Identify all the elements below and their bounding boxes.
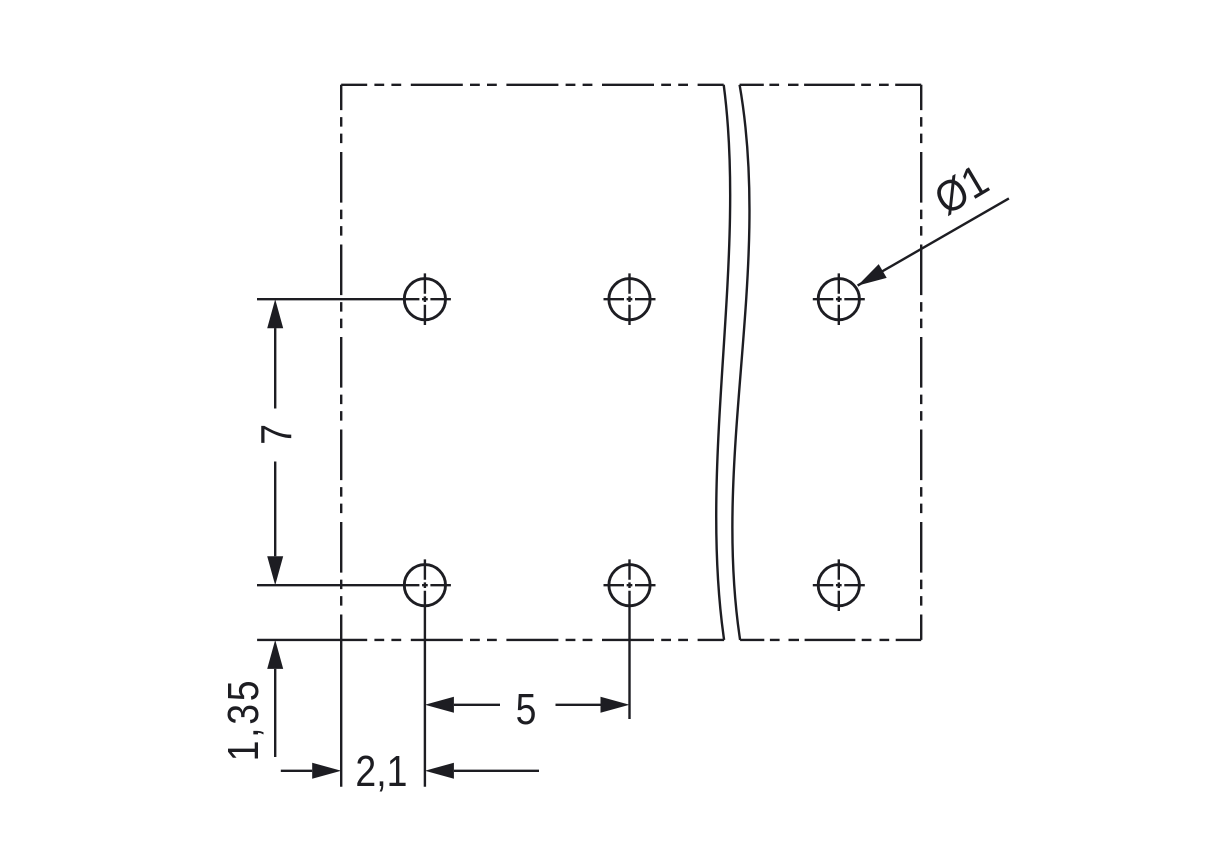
board outline bottom edge left segment — [341, 639, 724, 641]
hole H3 circle (top-right) — [818, 279, 859, 320]
board outline top edge left segment — [341, 84, 724, 86]
dimension 2,1 arrow pointing right — [312, 763, 341, 779]
board outline bottom edge right segment — [740, 639, 921, 641]
extension line left board edge extended below (for dim 2,1) — [340, 640, 342, 787]
svg-text:2,1: 2,1 — [355, 746, 407, 796]
svg-text:7: 7 — [252, 424, 302, 445]
hole H2 center mark — [604, 273, 656, 325]
dimension 1,35 arrow up — [267, 640, 283, 669]
svg-text:5: 5 — [516, 684, 537, 734]
dimension 2,1 arrow pointing left — [425, 763, 454, 779]
dimension 1,35 line — [274, 669, 276, 757]
dimension 5 arrow left — [425, 697, 454, 713]
hole H4 circle (bottom-left) — [404, 565, 445, 606]
break line left curve — [716, 85, 730, 640]
dimension 5 line left segment — [454, 704, 500, 706]
hole H6 circle (bottom-right) — [818, 565, 859, 606]
dimension 5 line right segment — [556, 704, 601, 706]
hole H1 center mark — [257, 273, 451, 325]
hole H5 center mark with extension to dimension 5 — [604, 559, 656, 719]
extension line bottom board edge (left of board, for dim 1,35) — [257, 639, 341, 641]
hole H1 circle (top-left) — [404, 279, 445, 320]
hole H4 center mark with extended extension lines — [257, 559, 451, 786]
dimension 2,1 left arrow shaft — [281, 770, 312, 772]
leader arrow — [858, 264, 887, 286]
svg-text:Ø1: Ø1 — [926, 155, 997, 224]
leader line for diameter callout — [858, 198, 1009, 285]
dimension 7 line upper segment — [274, 328, 276, 408]
dimension 5 arrow right — [601, 697, 630, 713]
hole H6 center mark — [813, 559, 865, 611]
hole H5 circle (bottom-middle) — [609, 565, 650, 606]
dimension 7 arrow up — [267, 299, 283, 328]
dimension 7 line lower segment — [274, 462, 276, 557]
board outline top edge right segment — [740, 84, 922, 86]
hole H3 center mark — [813, 273, 865, 325]
dimension 7 arrow down — [267, 556, 283, 585]
svg-text:1,35: 1,35 — [218, 678, 268, 762]
break line right curve — [732, 85, 749, 640]
hole H2 circle (top-middle) — [609, 279, 650, 320]
dimension 2,1 right arrow shaft — [454, 770, 539, 772]
board outline right edge — [920, 85, 922, 640]
board outline left edge — [340, 85, 342, 640]
